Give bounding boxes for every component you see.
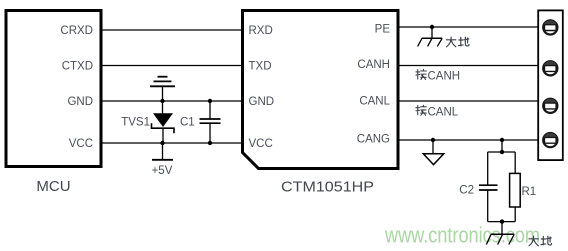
- node junction GND/C1: [208, 99, 212, 103]
- svg-text:CANL: CANL: [428, 106, 459, 118]
- svg-text:CTXD: CTXD: [62, 61, 93, 73]
- svg-text:CRXD: CRXD: [60, 25, 93, 37]
- svg-text:GND: GND: [249, 96, 275, 108]
- ground symbol (open triangle) on CANG: [423, 140, 443, 165]
- ground symbol earth on PE: [418, 27, 443, 46]
- wire CANL net: [398, 100, 538, 102]
- svg-text:CANH: CANH: [357, 59, 390, 71]
- svg-text:CANG: CANG: [357, 134, 390, 146]
- svg-text:MCU: MCU: [36, 178, 70, 195]
- label 大地 (earth) bottom: [529, 236, 552, 246]
- op chip CTM1051HP box: [243, 11, 399, 169]
- svg-text:C2: C2: [459, 185, 474, 197]
- wire PE net: [398, 26, 538, 28]
- wire GND net: [101, 100, 243, 102]
- node junction RC bottom: [500, 219, 504, 223]
- TVS diode TVS1: [152, 101, 175, 143]
- terminal screw 3: [543, 99, 557, 113]
- node junction RC top: [500, 150, 504, 154]
- node junction CANG/RC: [500, 138, 504, 142]
- ground symbol earth bottom: [486, 222, 514, 245]
- svg-text:RXD: RXD: [249, 25, 273, 37]
- svg-text:CANL: CANL: [359, 96, 390, 108]
- svg-text:CANH: CANH: [428, 71, 461, 83]
- wire CANH net: [398, 65, 538, 67]
- wire CANG net: [398, 139, 538, 141]
- svg-text:PE: PE: [375, 24, 391, 36]
- svg-text:+5V: +5V: [152, 165, 173, 177]
- svg-text:TXD: TXD: [249, 61, 272, 73]
- svg-text:VCC: VCC: [249, 138, 273, 150]
- ground symbol (earth) above GND wire: [150, 77, 175, 101]
- label 大地 (earth) PE: [446, 37, 469, 47]
- terminal screw 2: [543, 61, 557, 75]
- capacitor C1: [200, 101, 221, 143]
- MCU U-left box: [6, 11, 101, 167]
- svg-text:C1: C1: [180, 117, 195, 129]
- svg-text:VCC: VCC: [69, 138, 93, 150]
- node junction VCC/C1: [208, 141, 212, 145]
- connector J1 terminal block: [538, 10, 563, 160]
- node junction GND/TVS: [160, 99, 164, 103]
- node junction CANG/signal-ground: [431, 138, 435, 142]
- svg-text:TVS1: TVS1: [121, 117, 150, 129]
- svg-text:R1: R1: [522, 186, 537, 198]
- node junction PE/earth: [430, 25, 434, 29]
- label 接CANH: [416, 69, 460, 82]
- node junction VCC/TVS: [160, 141, 164, 145]
- capacitor C2: [479, 152, 498, 222]
- svg-text:GND: GND: [67, 96, 93, 108]
- label 接CANL: [416, 105, 459, 118]
- wire VCC net: [101, 142, 243, 144]
- wire CRXD-RXD: [101, 29, 243, 31]
- resistor R1: [510, 152, 521, 222]
- power rail +5V: [152, 143, 173, 160]
- terminal screw 4: [543, 133, 557, 147]
- wire CTXD-TXD: [101, 65, 243, 67]
- terminal screw 1: [543, 20, 557, 34]
- svg-text:CTM1051HP: CTM1051HP: [281, 179, 374, 196]
- wire RC bottom bar: [488, 221, 516, 223]
- svg-text:www.cntronics.com: www.cntronics.com: [384, 223, 540, 248]
- wire CANG to RC top bar: [488, 140, 516, 152]
